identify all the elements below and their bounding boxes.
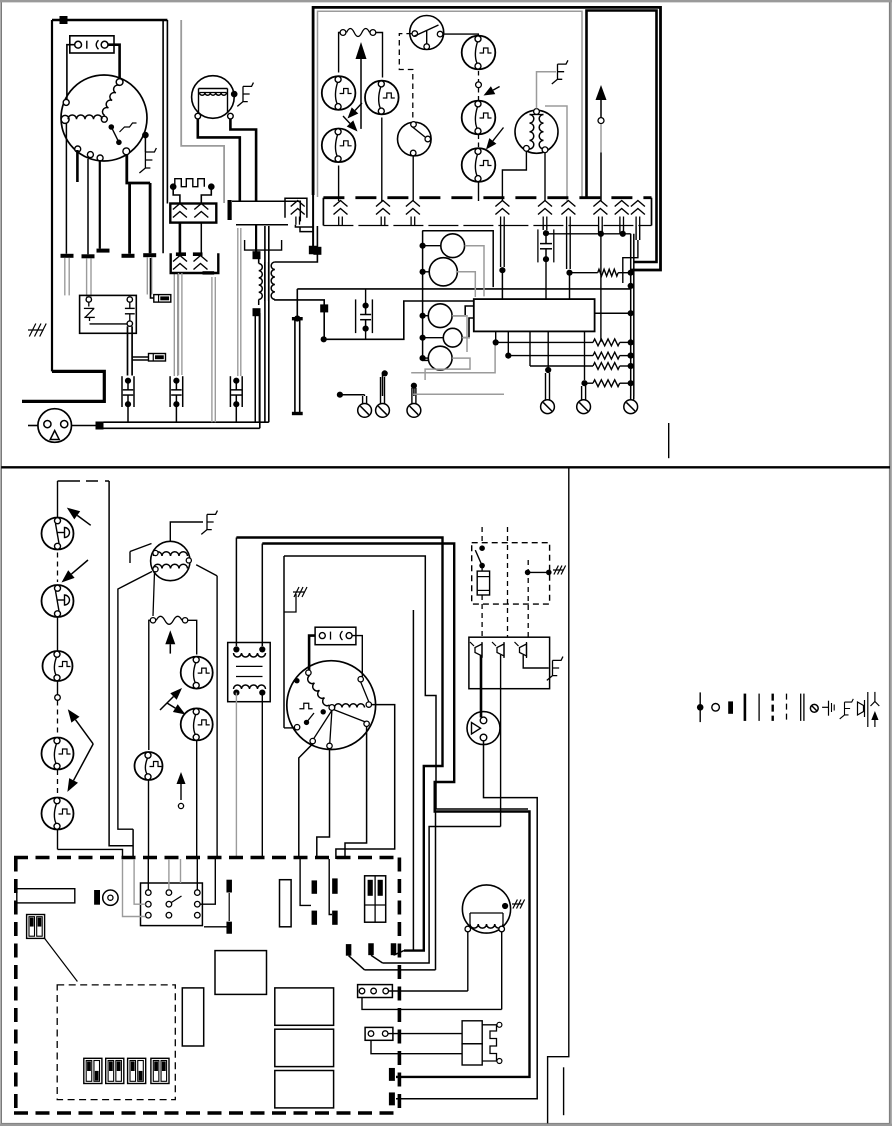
J1B terminal bar 2 bbox=[193, 252, 203, 256]
wire M3 side gray bbox=[545, 106, 567, 201]
M2 winding bbox=[200, 93, 227, 96]
resistor R1 bbox=[598, 269, 618, 276]
junction square J2 bbox=[96, 422, 104, 430]
resistor R4 bbox=[530, 365, 593, 367]
wire M4 right diag bbox=[196, 565, 217, 576]
chassis ground G5 bbox=[293, 587, 307, 597]
draft switch SW1 bbox=[42, 518, 74, 550]
terminal bar B2 bbox=[226, 922, 232, 934]
wire bus up right b bbox=[268, 226, 270, 422]
wire M1 lead e thick bbox=[128, 183, 131, 254]
limit switch LS-C bbox=[462, 148, 496, 182]
junction dot N1 bbox=[321, 336, 327, 342]
component rect tall bbox=[182, 988, 203, 1046]
legend chassis ground bbox=[822, 706, 828, 708]
bus chevron 4 bbox=[495, 201, 509, 207]
bus chevron 1 bbox=[334, 201, 348, 207]
wire M4 pin to fuse bbox=[153, 572, 155, 616]
wire M5 left pin bbox=[284, 727, 294, 729]
terminal bar T4 bbox=[122, 254, 135, 258]
bus left end box bbox=[322, 198, 324, 226]
junction square gas-left bbox=[309, 246, 318, 255]
inducer motor M4 bbox=[151, 541, 190, 580]
wire SC2 up bbox=[380, 377, 382, 404]
wire conn jogs bbox=[295, 225, 312, 227]
wire G5 lead bbox=[284, 594, 296, 612]
wire TR2 sec leads bbox=[235, 693, 237, 859]
dashed feed top bbox=[58, 480, 81, 482]
PS1 castellation bbox=[482, 1025, 496, 1061]
indicator plug PL2 bbox=[467, 712, 500, 745]
pressure switch PS-C bbox=[322, 129, 356, 163]
9-pin connector CN1 bbox=[141, 883, 203, 926]
wire P1 left into plug bbox=[173, 189, 180, 204]
legend junction dot bbox=[699, 692, 701, 722]
wire left vertical run bbox=[51, 20, 53, 371]
M2 pin right bbox=[228, 113, 234, 119]
C1 pin 2 bbox=[127, 297, 132, 302]
earth ground G4 bbox=[201, 511, 217, 535]
capacitor terminal CT1 bbox=[121, 376, 123, 407]
label plate rect bbox=[17, 889, 75, 903]
junction square TR1b bbox=[313, 247, 321, 255]
wire F1 left down bbox=[339, 33, 341, 73]
terminal strip TB1 bbox=[358, 985, 393, 998]
wire chev7 down bbox=[598, 226, 600, 234]
bar and bullseye bbox=[94, 890, 100, 905]
dual run capacitor box C1 bbox=[80, 295, 137, 333]
wire SW5 down bbox=[57, 830, 59, 850]
fuse F3 bbox=[477, 571, 489, 595]
wire gray pair 2 below J1B bbox=[211, 277, 213, 422]
terminal bar B4 bbox=[312, 911, 318, 925]
limit switch LS-A bbox=[462, 36, 496, 70]
wire C2 down bbox=[545, 262, 547, 300]
M6 winding bbox=[470, 924, 503, 928]
terminal bar B5 bbox=[332, 878, 338, 893]
wire TR1 secondary bottom bbox=[275, 299, 324, 305]
wire SW2-SW3 bbox=[57, 617, 59, 651]
M4 winding rows bbox=[154, 552, 188, 556]
arrow sensor up bbox=[600, 100, 602, 120]
wire SW1 top bbox=[57, 481, 59, 518]
wire gray mid bbox=[181, 20, 224, 203]
RB1 contact 2 bbox=[497, 644, 504, 656]
screw terminal SC5 bbox=[577, 400, 591, 414]
narrow rect bbox=[280, 880, 292, 927]
harness double wire bbox=[294, 320, 296, 414]
wire sec chain down bbox=[323, 312, 325, 337]
wire contact1 thick bbox=[480, 655, 483, 718]
wire ladder bottom jog bbox=[58, 849, 123, 858]
relay rect RL3 bbox=[275, 1071, 334, 1108]
terminal bar T1 bbox=[61, 254, 74, 258]
dashed control box D1 bbox=[472, 543, 550, 604]
M1 ground dot bbox=[142, 132, 149, 139]
RB1 contact 1 bbox=[475, 644, 482, 656]
terminal bar T5 bbox=[143, 253, 156, 257]
terminal bar B1 bbox=[226, 880, 232, 893]
C1 capacitor plates bbox=[125, 307, 135, 309]
transformer TR1 primary bbox=[259, 264, 263, 300]
gray frame around relays bbox=[422, 231, 493, 287]
relay rect RL1 bbox=[275, 988, 334, 1025]
relay stubs bbox=[423, 245, 441, 247]
control board dashed border top bbox=[14, 856, 401, 860]
bus chevron 2 bbox=[376, 201, 390, 207]
wire M3 pin right down bbox=[544, 153, 546, 201]
wire M5 right out bbox=[336, 705, 395, 859]
fuse link F2 bbox=[150, 618, 155, 623]
pressure switch PS-B bbox=[365, 81, 399, 115]
P1 dot left bbox=[170, 183, 177, 190]
wire board bottom 4 bbox=[547, 331, 549, 367]
wire P1 right into plug bbox=[201, 189, 211, 204]
wire M1 lead d thick bbox=[127, 155, 150, 183]
wire F3 down dashed bbox=[481, 595, 483, 637]
M2 ground dot bbox=[231, 91, 238, 98]
door switch box S2 bbox=[315, 627, 356, 645]
M1 pin 3 bbox=[61, 115, 69, 123]
M2 pin left bbox=[195, 113, 201, 119]
dashed SW1-SW2 bbox=[57, 553, 59, 583]
tick mark top section right bbox=[668, 423, 670, 458]
P1 dot right bbox=[208, 183, 215, 190]
J1A chevron 1 bbox=[173, 204, 187, 210]
wire plug to junction bbox=[72, 425, 100, 427]
right bus pair bbox=[630, 234, 632, 396]
arrow flame-sense up bbox=[360, 59, 362, 129]
relay bus dots bbox=[420, 243, 426, 249]
wire TB1 right bbox=[389, 990, 468, 992]
wire mid vertical b bbox=[166, 20, 168, 204]
wire chev5 down bbox=[542, 226, 544, 231]
screw terminal SC3 bbox=[407, 404, 421, 418]
wire N3 east bbox=[340, 394, 365, 396]
wire M1 to ground bbox=[144, 135, 146, 152]
dashed SW4-SW5 bbox=[57, 770, 59, 795]
bus chevron 5 bbox=[538, 201, 552, 207]
wire board bottom 5 bbox=[584, 331, 586, 380]
wire bars b bbox=[329, 859, 332, 915]
legend double bar bbox=[800, 694, 802, 721]
tick mark near bottom divider bbox=[563, 1067, 565, 1115]
S2 marks bbox=[330, 632, 332, 640]
M1 pin 1 bbox=[116, 79, 123, 86]
wire TR1 primary pair down bbox=[254, 316, 256, 422]
M4 pins bbox=[153, 550, 158, 555]
igniter motor M3 bbox=[515, 110, 558, 153]
wire 24V rail long bbox=[297, 288, 630, 290]
DIP switch SW-A bbox=[27, 915, 45, 939]
bus lower line bbox=[323, 225, 651, 227]
receptacle outline below bbox=[245, 240, 282, 250]
arrow up mid bbox=[169, 644, 171, 653]
arrow pair near PS bbox=[355, 103, 362, 110]
M1 pin 5 bbox=[75, 146, 81, 152]
DIP block 1 bbox=[84, 1058, 102, 1083]
M5 dots bbox=[294, 678, 299, 683]
terminal bar B3 bbox=[312, 880, 318, 893]
screw terminal SC6 bbox=[624, 400, 638, 414]
limit switch LS-B bbox=[462, 101, 496, 135]
relay coil RC2 bbox=[429, 258, 457, 286]
earth ground G2 bbox=[237, 83, 253, 107]
legend thin dashed bbox=[786, 694, 788, 721]
arrow into LS-B bbox=[493, 87, 499, 91]
wire T5 to connector bbox=[151, 258, 154, 298]
relay left bus bbox=[422, 231, 424, 361]
GV blade bbox=[414, 25, 439, 37]
wire J1A-1 down bbox=[179, 223, 182, 254]
tall box right edge inner bbox=[587, 11, 657, 263]
wire diag B8 bbox=[371, 955, 383, 963]
earth ground G1 bbox=[139, 148, 156, 173]
resistor R5 bbox=[585, 382, 594, 384]
wire M1 lead a bbox=[65, 124, 67, 254]
junction square TR1a bbox=[253, 251, 261, 259]
M1 winding horizontal bbox=[68, 115, 102, 119]
blower motor M5 bbox=[287, 661, 376, 750]
valve solenoid MV circle bbox=[398, 122, 432, 156]
wire TB2 right bbox=[388, 1033, 462, 1035]
resistor R2 bbox=[496, 341, 593, 343]
wire C1 down pair bbox=[127, 326, 129, 375]
terminal strip TB2 bbox=[365, 1027, 393, 1040]
screw terminal SC4 bbox=[541, 400, 555, 414]
gas section outer box bbox=[313, 7, 660, 270]
wire PS-B down bbox=[381, 118, 383, 202]
C1 thermal protector bbox=[88, 302, 90, 306]
wire board right bbox=[595, 312, 631, 314]
wire thick L-run lower left bbox=[22, 371, 104, 401]
wire gray pair below T1 bbox=[64, 258, 66, 295]
junction square on L1 bbox=[60, 16, 68, 24]
TR2 secondary coil bbox=[234, 685, 266, 689]
C1 pin 3 bbox=[127, 321, 132, 326]
fuse block FB1 bbox=[365, 876, 386, 922]
loop L3 wire bbox=[284, 556, 528, 809]
wire M5 pin b2 bbox=[317, 749, 330, 859]
gas box left lower bbox=[312, 195, 314, 248]
wire RC3 to board bbox=[452, 306, 474, 316]
M5 pins bbox=[306, 670, 311, 675]
junction dot N3 bbox=[337, 392, 343, 398]
dashed wire GV to MV bbox=[399, 34, 413, 122]
rollout switch SW4 bbox=[42, 738, 74, 770]
CN1 pins bbox=[146, 890, 152, 896]
C1 pin 1 bbox=[86, 297, 91, 302]
wire C3 bottom bbox=[365, 331, 367, 340]
dot bus r1 bbox=[628, 353, 634, 359]
wire CT1 to bus bbox=[127, 406, 129, 423]
terminal bar T2 bbox=[82, 254, 95, 258]
RB1 contact 3 bbox=[520, 644, 527, 656]
wire bars c bbox=[204, 926, 229, 928]
junction square TR1c bbox=[253, 308, 261, 316]
pin small bbox=[55, 695, 61, 701]
wire bus up right a bbox=[264, 226, 266, 422]
bus chevron 3 bbox=[406, 201, 420, 207]
wire M1 lead b bbox=[76, 150, 79, 182]
inducer motor M2 bbox=[192, 76, 235, 119]
switch in D1 bbox=[479, 545, 485, 551]
rollout switch SW5 bbox=[42, 798, 74, 830]
M1 pin 2 bbox=[63, 99, 69, 105]
M5 spokes bbox=[314, 710, 332, 739]
inline connector CN-A bbox=[154, 295, 171, 303]
wire sensor down black bbox=[600, 153, 602, 202]
gas valve GV top circle bbox=[410, 16, 444, 50]
wire N1 east bbox=[324, 301, 474, 339]
wire SC1 up bbox=[362, 396, 364, 404]
loop L1 wire bbox=[236, 538, 442, 951]
J1B terminal bar 3 bbox=[203, 271, 215, 274]
TR1 core bbox=[264, 262, 266, 301]
wire TR2 right lead bbox=[261, 544, 263, 647]
bus chevron 9 bbox=[631, 201, 645, 207]
M3 pins bbox=[534, 109, 540, 115]
wire M3 pin left down bbox=[502, 152, 526, 202]
vertical divider of ladder section bbox=[548, 467, 569, 1123]
wire S2 left to M5 bbox=[309, 636, 315, 671]
wire board bottom 1 bbox=[495, 331, 497, 342]
S2 pins bbox=[319, 633, 325, 639]
relay coil RC5 bbox=[428, 346, 452, 370]
M6 dot bbox=[502, 903, 508, 909]
TR2 primary coil bbox=[234, 653, 266, 657]
wire TR1 primary bottom bbox=[258, 299, 260, 305]
terminal bar B9 bbox=[391, 943, 397, 955]
wire gray pair below J1B bbox=[178, 273, 180, 375]
wire chev8 down bbox=[619, 226, 621, 234]
J1B terminal bar 1 bbox=[176, 252, 186, 256]
connector box left of gas box bbox=[285, 198, 307, 218]
M5 switch glyph bbox=[299, 703, 312, 709]
wire chain J1B to TR1 bbox=[255, 226, 257, 252]
CN1 switch blade bbox=[171, 896, 181, 903]
DIP block 3 bbox=[128, 1058, 146, 1083]
wire C3 top bbox=[365, 289, 367, 303]
wire M3 top to ground bbox=[537, 72, 557, 109]
wire M4 to ground bbox=[170, 522, 203, 541]
relay rect RL2 bbox=[275, 1029, 334, 1066]
receptacle box around mid chevrons bbox=[228, 200, 232, 220]
induced draft motor M6 bbox=[462, 885, 510, 933]
M5 winding horiz bbox=[335, 704, 365, 708]
control board dashed border left bbox=[14, 858, 18, 1114]
bottom bus wire a bbox=[104, 421, 269, 423]
junction dot N5 bbox=[411, 383, 417, 389]
bus chevron 8 bbox=[615, 201, 629, 207]
wire PL2 down bbox=[396, 741, 537, 1099]
wire contact2 down bbox=[500, 655, 502, 827]
LS small pin bbox=[476, 82, 482, 88]
wire S2 right to M5 bbox=[352, 636, 362, 677]
dot right bus mid bbox=[628, 283, 634, 289]
wire rail corner down bbox=[296, 289, 298, 316]
terminal bar B10 bbox=[389, 1068, 395, 1081]
wire gray pair above CT3 bbox=[237, 228, 239, 376]
screw terminal SC2 bbox=[376, 404, 390, 418]
gray wires lower bbox=[452, 316, 467, 352]
bus chevron 7 bbox=[593, 201, 607, 207]
legend plug bbox=[858, 702, 864, 715]
wire gray pair below T5 bbox=[146, 258, 148, 295]
M1 winding diagonal bbox=[102, 85, 119, 115]
wire M5 pin b3 bbox=[345, 727, 367, 860]
wire PS-C down bbox=[338, 166, 340, 202]
wire diag B9 bbox=[394, 951, 405, 956]
pin small 2 bbox=[178, 803, 183, 808]
capacitor C2 bbox=[537, 229, 539, 262]
terminal bar B8 bbox=[368, 943, 374, 955]
wire RC4 to board bbox=[462, 318, 474, 338]
connector plug box J1A bbox=[170, 204, 216, 223]
relay contact K2 bbox=[181, 708, 213, 740]
wire SW3 down bbox=[57, 681, 59, 695]
M1 pin 4 bbox=[101, 116, 107, 122]
junction dot N4 bbox=[382, 370, 388, 376]
interlock contact marks bbox=[86, 41, 88, 49]
wire 24v row bbox=[546, 233, 631, 235]
capacitor terminal CT3 bbox=[229, 376, 231, 407]
wire M2 left lead bbox=[198, 119, 240, 201]
wire N4 east bbox=[383, 372, 385, 374]
wire TR1 primary top bbox=[258, 258, 260, 264]
wire SC3 up bbox=[411, 388, 413, 404]
resistor R3 bbox=[508, 355, 593, 357]
relay coil RC3 bbox=[428, 304, 452, 328]
wire chev4 down bbox=[500, 226, 502, 268]
wire contact2 jog bbox=[383, 827, 501, 964]
arrow into LS-C bbox=[493, 128, 504, 141]
power plug PL1 bbox=[38, 409, 72, 443]
wire K3 down bbox=[148, 780, 150, 859]
wire M1 lead c bbox=[99, 160, 101, 249]
wire F2 left down bbox=[149, 620, 151, 750]
J1B chevron 2 bbox=[194, 256, 208, 262]
inner dashed box bbox=[57, 985, 175, 1100]
blower motor M1 outline bbox=[61, 75, 147, 161]
earth ground G7 bbox=[547, 657, 563, 681]
relay contact K3 bbox=[135, 752, 163, 780]
wire F2 right down bbox=[188, 620, 197, 654]
wire TR1 sec sq up bbox=[316, 226, 318, 247]
DIP block 2 bbox=[106, 1058, 124, 1083]
wire board bottom 2 bbox=[507, 331, 509, 355]
inline connector CN-B bbox=[149, 354, 166, 362]
wire TR2 left lead bbox=[235, 538, 237, 647]
DIP block 4 bbox=[151, 1058, 169, 1083]
chassis ground left bbox=[28, 324, 46, 337]
fuse F1 wavy link bbox=[340, 30, 346, 36]
J1A chevron 2 bbox=[194, 204, 208, 210]
wire diag B7 bbox=[349, 956, 365, 970]
bottom bus wire b bbox=[104, 427, 260, 429]
legend thin bar bbox=[758, 694, 760, 721]
control board dashed border bottom bbox=[14, 1111, 401, 1115]
wire M2 right lead bbox=[230, 119, 256, 201]
wire M5 pin b1 bbox=[299, 744, 313, 859]
ground node in D1 bbox=[525, 570, 531, 576]
connector box J1B bbox=[171, 253, 219, 273]
legend thick dashed bbox=[772, 694, 774, 721]
screw terminal SC1 bbox=[358, 404, 372, 418]
TR2 dots bbox=[233, 646, 239, 652]
pressure switch PS-A bbox=[322, 76, 356, 110]
M6 pins bbox=[465, 926, 471, 932]
